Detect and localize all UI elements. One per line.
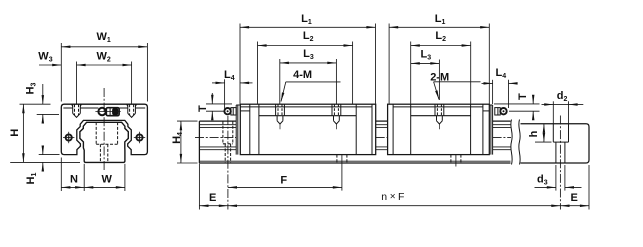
grease nipple (front view) (95, 108, 120, 116)
rail bolt hole 3 axis (455, 155, 457, 167)
break lines in rail (511, 120, 512, 165)
rail top edge segments (199, 120, 510, 122)
block 1 grease port line (240, 110, 250, 112)
block 2 end seal right (double line) (490, 105, 492, 155)
block 2 bolt hole (435, 104, 444, 129)
block 1 end plate inner line (249, 104, 251, 154)
dimension T right (outside arrows) (494, 96, 540, 119)
dimension W2 (77, 62, 132, 104)
rail bolt counterbore (hidden) (96, 122, 117, 162)
dimension d3 (outside arrows) (535, 165, 582, 191)
dimension L4 right (outside arrows) (482, 80, 518, 108)
dimension E right (560, 165, 589, 210)
side tapped hole right (crosshair circle) (134, 132, 145, 143)
rail bolt hole 1 (hidden) (223, 121, 233, 163)
block 2 top inner line (393, 106, 483, 108)
block 2 grease port line (483, 110, 489, 112)
dimension L4 left (outside arrows) (212, 79, 253, 110)
dimension H1 (39, 147, 60, 170)
block 1 bolt hole A (276, 104, 285, 129)
svg-text:n×F: n×F (381, 191, 404, 203)
svg-text:F: F (280, 174, 287, 186)
dimension E left (199, 164, 228, 210)
rail right end portion (after break) (521, 124, 590, 163)
rail bolt hole 1 axis (227, 116, 229, 210)
block 2 grease nipple (side) (495, 108, 507, 115)
block 2 recess line (411, 115, 471, 117)
svg-text:4-M: 4-M (293, 69, 312, 81)
dimension L1 block 1 (240, 24, 376, 104)
dimension d2 (outside arrows) (542, 101, 584, 124)
block top inner line (63, 107, 145, 109)
svg-text:N: N (70, 173, 78, 185)
rail lower groove lines (199, 147, 510, 150)
rail bolt hole 2 (hidden sliver under block 1) (337, 155, 347, 163)
block 2 body (388, 104, 490, 154)
svg-text:T: T (197, 105, 209, 112)
block 1 bolt hole B (332, 104, 341, 129)
dimension H4 (rail height) (177, 121, 198, 163)
dimension W1 (61, 43, 147, 102)
block 1 end plate line right (371, 104, 373, 154)
block 1 body (240, 104, 375, 154)
svg-text:T: T (517, 93, 529, 100)
dimension H3 (20, 84, 60, 123)
svg-text:E: E (209, 192, 216, 204)
dimension h (535, 124, 552, 142)
rail cross-section profile (80, 122, 128, 162)
block 2 end plate line left (392, 104, 394, 154)
block 2 end plate inner line right (482, 104, 484, 154)
svg-text:h: h (528, 130, 540, 137)
rail axis center line (195, 136, 511, 138)
svg-text:E: E (571, 192, 578, 204)
block 1 grease nipple (side) (224, 108, 236, 115)
dimension L2 block 2 (411, 42, 471, 104)
block mounting bolt hole left (72, 104, 82, 117)
svg-text:2-M: 2-M (430, 72, 449, 84)
dimension L1 block 2 (389, 24, 489, 104)
dimension N (61, 158, 84, 192)
rail upper groove lines (199, 125, 510, 128)
dimension W3 (outside arrow) (39, 64, 61, 66)
dimension L2 block 1 (258, 42, 353, 104)
svg-text:W: W (102, 173, 113, 185)
svg-text:H: H (9, 129, 21, 137)
2-M label leader (434, 82, 481, 100)
dimension L3 block 1 (280, 59, 337, 104)
dimension F (228, 155, 342, 191)
dimension H (10, 104, 80, 162)
block 1 recess verticals (258, 104, 260, 154)
rail end bolt hole counterbore (section) (553, 124, 568, 163)
dimension L3 block 2 (411, 60, 440, 101)
block 1 recess line (259, 115, 356, 117)
carriage block outline with inner profile cutout (61, 104, 147, 154)
side tapped hole left (crosshair circle) (63, 132, 74, 143)
block 1 top inner line (240, 106, 372, 108)
dimension W (84, 164, 125, 191)
center line of cross-section (103, 88, 105, 172)
rail bottom edge (199, 162, 510, 164)
block 2 recess verticals (410, 104, 412, 154)
rail end bolt hole axis (559, 116, 561, 210)
block mounting bolt hole right (127, 104, 137, 117)
block 1 end seal left (double line) (235, 105, 237, 155)
dimension n x F (228, 205, 561, 207)
dimension T left (outside arrows) (206, 93, 232, 120)
4-M label leader (281, 82, 341, 102)
rail left end edge (198, 121, 200, 163)
rail bottom chamfer line (199, 160, 510, 162)
rail bolt hole 3 (hidden sliver under block 2) (451, 155, 461, 163)
